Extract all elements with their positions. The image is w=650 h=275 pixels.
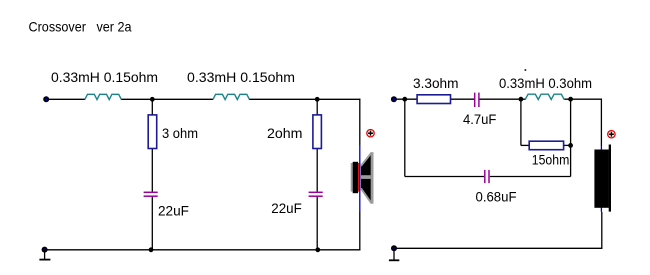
wire: right vertical upper (to speaker) [359,99,361,145]
node D junction dot [568,97,573,102]
resistor R3 3.3ohm [417,95,450,104]
wire: after L3 to corner [564,98,602,100]
stray dot mark [525,69,527,71]
node A junction dot [150,97,155,102]
resistor R2 2ohm [313,115,322,149]
wire: R2 to C2 [316,148,318,192]
wire: left top from input to L1 [46,98,85,100]
svg-text:4.7uF: 4.7uF [463,111,496,127]
wire: C3 to L3 [480,98,526,100]
wire: node C down to R4 [520,99,522,145]
wire: bottom rail right circuit [394,247,602,249]
wire: node D down to lower branch [570,99,572,176]
svg-text:22uF: 22uF [158,202,189,218]
speaker LS1 (woofer side view) [351,152,374,204]
svg-text:Crossover ver 2a: Crossover ver 2a [29,19,132,35]
node B junction dot [315,97,320,102]
wire: C to R4 left lead [521,144,530,146]
wire: C1 to bottom rail [151,197,153,250]
svg-text:3.3ohm: 3.3ohm [413,75,459,91]
wire: right vertical lower [359,212,361,251]
wire: input to R3 [394,98,418,100]
wire: lower branch left of C4 [405,176,484,178]
inductor L2 0.33mH 0.15ohm [213,94,250,99]
plus marker left speaker [367,130,374,137]
wire: bottom rail left circuit [45,249,361,251]
junction dot right of R4 [568,143,573,148]
resistor R4 15ohm [529,141,563,150]
ground GND1 [39,247,50,260]
resistor R1 3 ohm [148,115,157,149]
svg-text:0.68uF: 0.68uF [476,189,517,205]
svg-text:0.33mH 0.3ohm: 0.33mH 0.3ohm [499,75,592,91]
wire: R4 right lead [563,144,571,146]
wire: tweeter to bottom corner [601,212,603,249]
speaker LS2 (tweeter) [594,145,611,212]
wire: junction A down to R1 [151,99,153,115]
bottom junction dot under C1 [149,247,154,252]
svg-text:15ohm: 15ohm [532,152,570,168]
terminal input left (navy dot) [43,96,49,102]
capacitor C3 4.7uF [475,93,479,107]
capacitor C2 22uF [309,192,323,196]
bottom junction dot under C2 [315,247,320,252]
wire: right vertical upper (to tweeter) [600,99,602,147]
svg-text:2ohm: 2ohm [267,125,303,141]
wire: lower branch right of C4 [490,176,571,178]
svg-text:3 ohm: 3 ohm [162,125,198,141]
wire: C2 to bottom rail [316,197,318,250]
junction dot at input branch [402,97,407,102]
inductor L3 0.33mH 0.3ohm [525,94,564,99]
wire: junction B down to R2 [316,99,318,115]
inductor L1 0.33mH 0.15ohm [85,94,122,99]
svg-text:22uF: 22uF [271,200,302,216]
capacitor C4 0.68uF [485,170,489,183]
terminal input right (navy dot) [391,96,397,102]
capacitor C1 22uF [144,192,158,196]
wire: input branch down [404,99,406,176]
node C junction dot [519,97,524,102]
wire: R1 to C1 [151,148,153,192]
plus marker right speaker [608,131,615,138]
wire: after L2 to top-right corner [249,98,360,100]
wire: between L1 and L2 [121,98,213,100]
ground GND2 [389,245,399,260]
wire: speaker pin (blue) [359,145,361,212]
wire: tweeter pin (blue) [600,146,602,212]
svg-text:0.33mH 0.15ohm: 0.33mH 0.15ohm [187,69,295,85]
svg-text:0.33mH 0.15ohm: 0.33mH 0.15ohm [51,69,158,85]
wire: R3 to C3 [450,98,474,100]
